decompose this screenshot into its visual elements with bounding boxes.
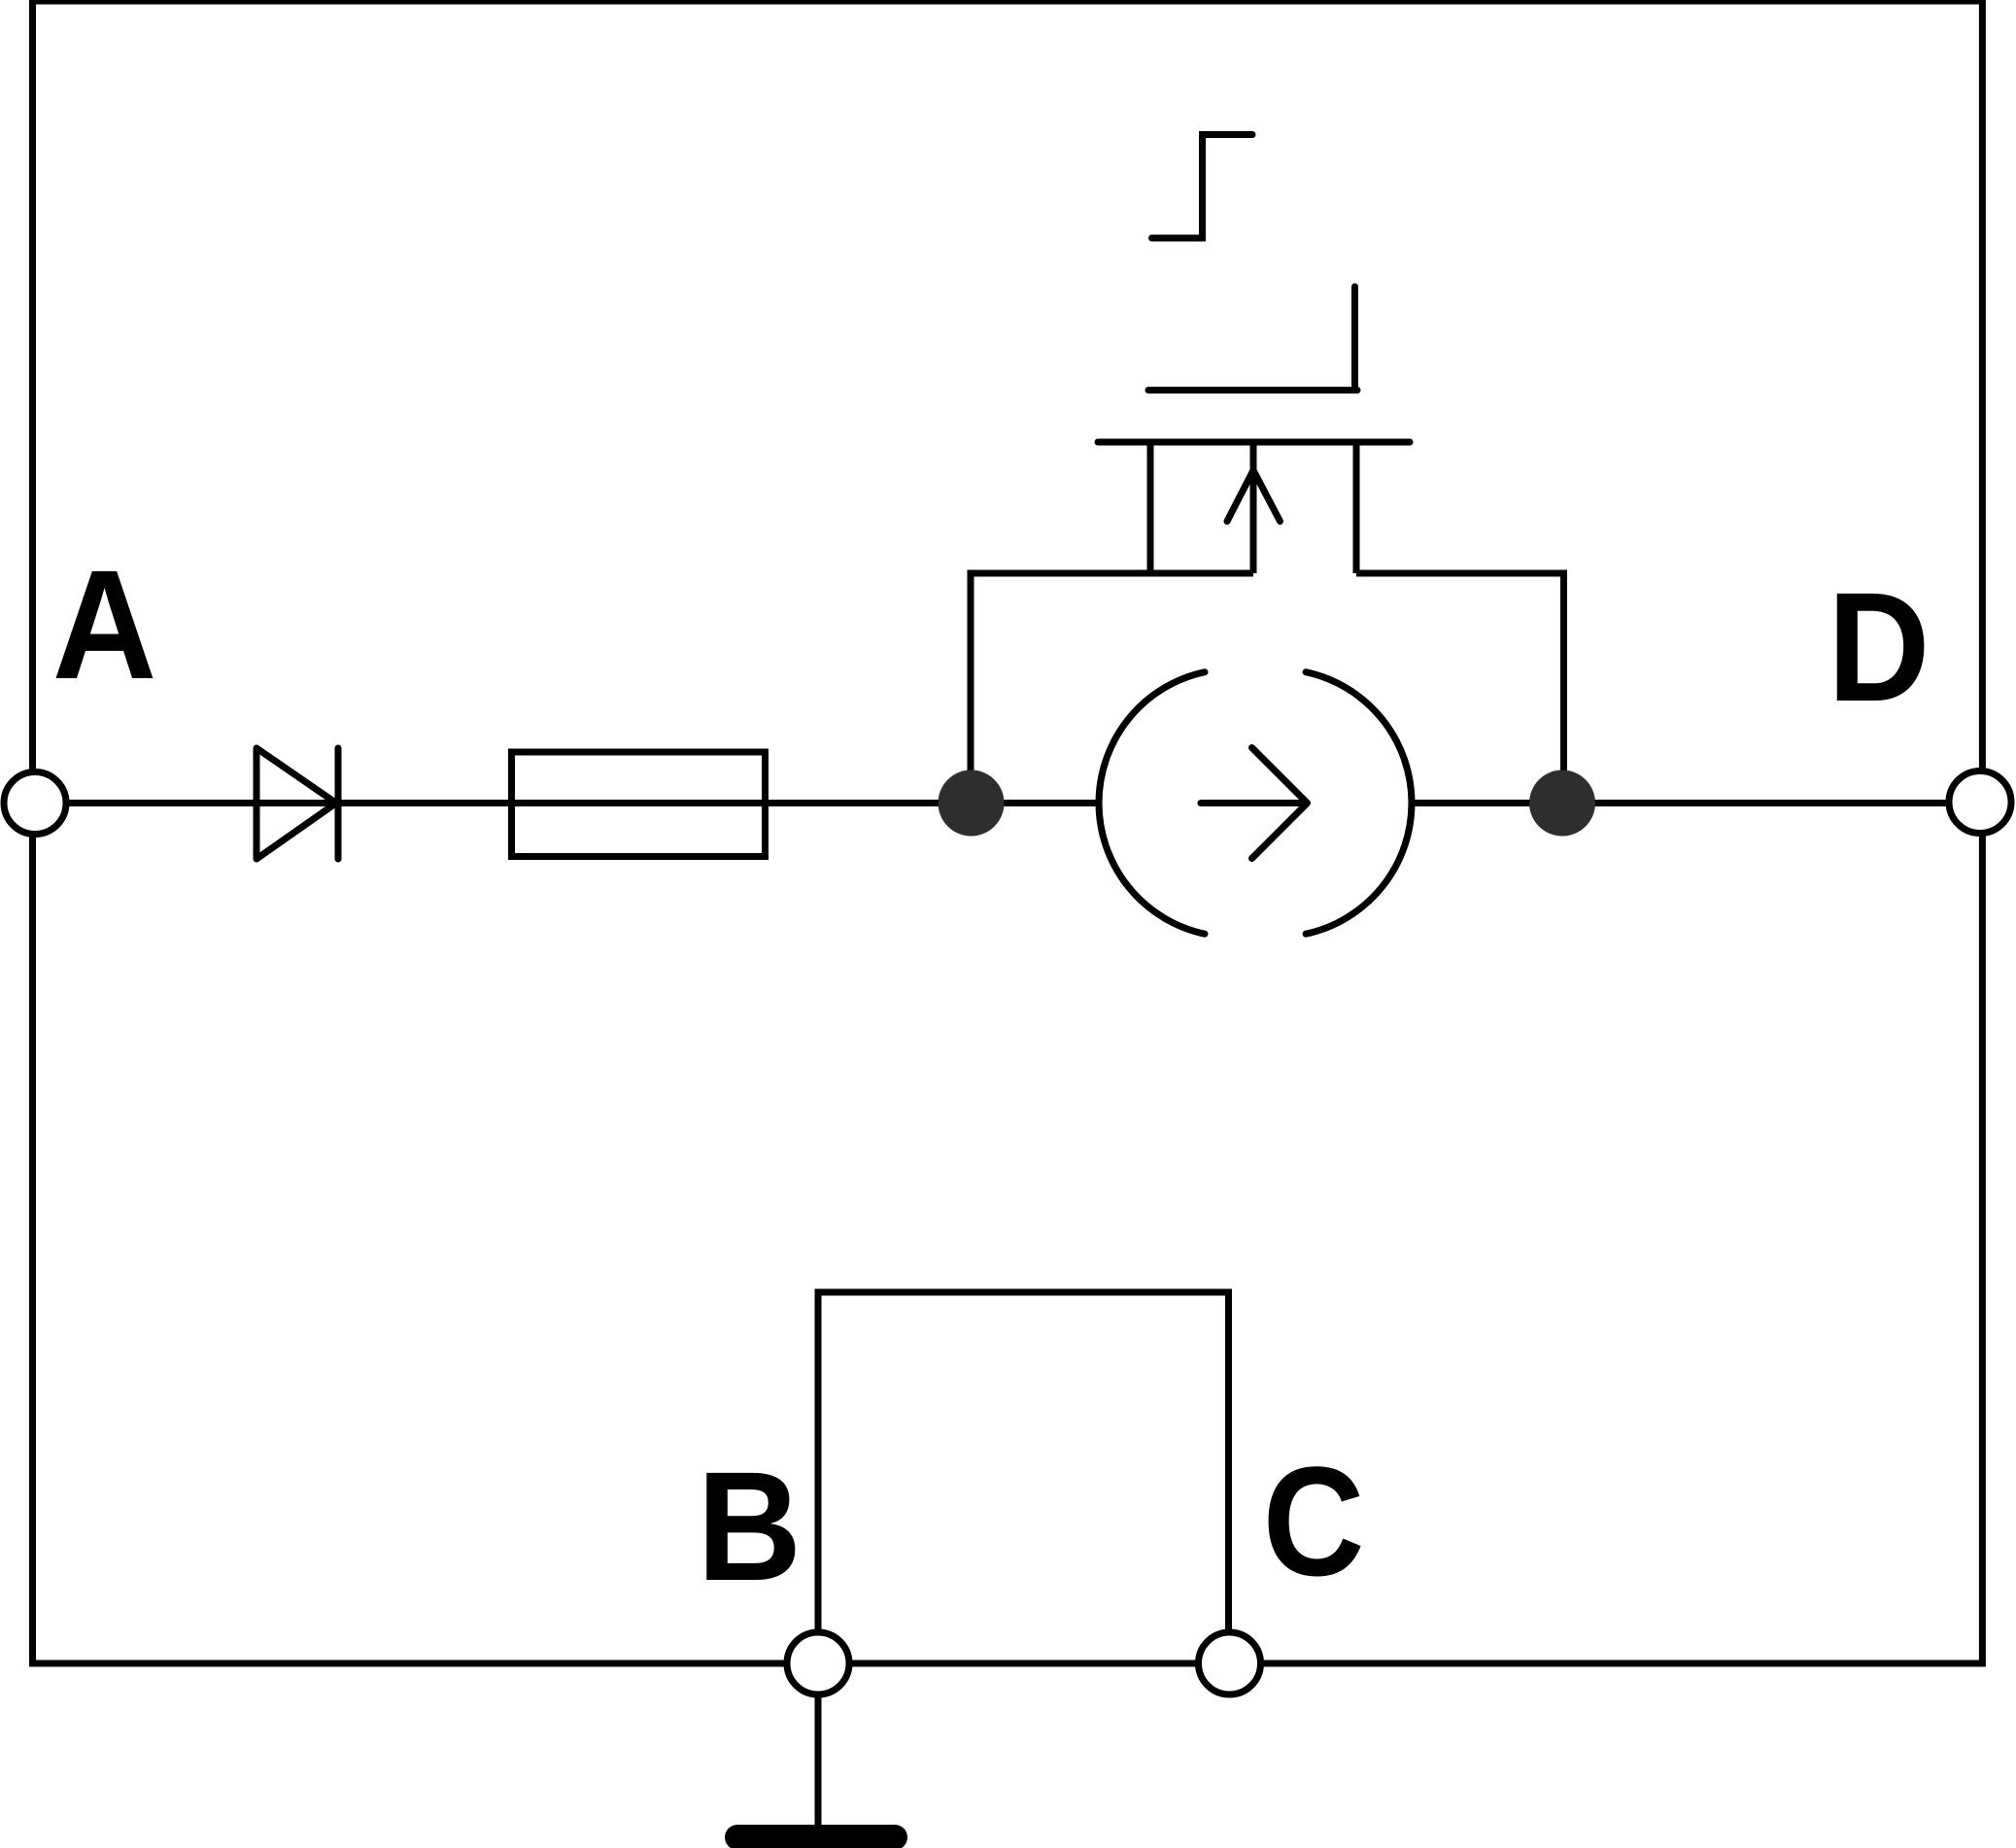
junction dot right [1529,770,1595,837]
diode D1 triangle (anode) [256,748,336,859]
node C (open terminal circle) [1199,1632,1261,1694]
wire: current source to node D [1411,800,1980,806]
MOSFET Q1 body lead [1250,442,1257,573]
label A [52,537,156,711]
svg-text:C: C [1263,1436,1365,1609]
MOSFET Q1 gate plate [1148,387,1357,394]
node B (open terminal circle) [787,1632,849,1694]
current source I1 left arc [1099,672,1205,935]
MOSFET Q1 body arrow (pointing up into channel) [1227,470,1281,522]
wire: Q1 drain down-right to right junction [1356,573,1564,804]
node D (open terminal circle) [1949,771,2011,834]
MOSFET Q1 gate lead (up) [1351,287,1358,391]
svg-text:A: A [52,537,156,711]
label D [1828,561,1930,735]
MOSFET Q1 channel line [1098,439,1410,446]
svg-text:B: B [697,1439,802,1613]
MOSFET Q1 source lead [1147,442,1154,573]
label C [1263,1436,1365,1609]
current source I1 right arc [1306,672,1412,935]
label B [697,1439,802,1613]
control step signal at gate [1152,135,1253,239]
diode D1 cathode bar [335,748,342,859]
node A (open terminal circle) [4,772,66,835]
fuse F1 body [512,752,766,857]
MOSFET Q1 drain lead [1353,442,1360,573]
wire: bottom B-C loop box [818,1292,1229,1663]
wire: B down to ground [815,1663,822,1827]
current source I1 arrow (pointing right) [1201,748,1308,859]
junction dot left [939,770,1005,837]
wire: main horizontal A to current source [35,800,1100,806]
svg-text:D: D [1828,561,1930,735]
ground (earth bar) [725,1825,907,1848]
wire: Q1 source/body down-left to left junction [971,573,1253,804]
